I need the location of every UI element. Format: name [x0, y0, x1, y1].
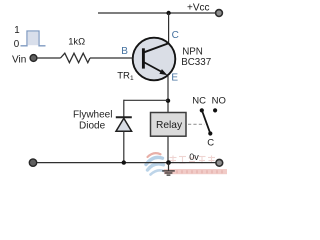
ground symbol: [168, 163, 170, 171]
svg-text:E: E: [171, 73, 178, 84]
svg-text:C: C: [172, 30, 179, 41]
svg-text:Relay: Relay: [156, 120, 183, 131]
svg-text:0: 0: [14, 39, 20, 50]
svg-text:1kΩ: 1kΩ: [68, 35, 85, 46]
wire collector drop: [168, 13, 170, 44]
switch contact NO: [213, 108, 217, 112]
wire diode tap horizontal: [124, 99, 168, 101]
wire base right segment: [90, 57, 133, 59]
pulse waveform icon: [21, 31, 46, 46]
diode D1 triangle: [116, 118, 132, 131]
switch arm C to NC: [201, 109, 210, 134]
dashed actuation link relay to switch: [188, 123, 205, 125]
resistor R1 1k zigzag: [61, 53, 91, 62]
svg-text:C: C: [207, 137, 214, 148]
watermark logo red arc: [148, 153, 161, 157]
svg-text:NPN: NPN: [182, 46, 203, 57]
transistor TR1 base bar: [142, 48, 145, 68]
svg-text:NO: NO: [212, 95, 226, 106]
wire relay bottom: [167, 136, 169, 162]
watermark logo blue swirl: [146, 157, 163, 164]
svg-text:B: B: [121, 46, 128, 57]
svg-text:1: 1: [14, 25, 19, 36]
watermark red banner: [164, 169, 227, 174]
junction diode tap: [166, 99, 170, 103]
svg-text:NC: NC: [192, 95, 206, 106]
switch pole C: [208, 131, 212, 135]
svg-text:0v: 0v: [189, 152, 199, 162]
svg-text:Diode: Diode: [79, 121, 106, 132]
svg-text:BC337: BC337: [181, 57, 211, 68]
switch contact NC: [200, 108, 204, 112]
junction relay/0v ground: [166, 160, 171, 165]
junction diode/0v: [122, 160, 126, 164]
watermark faint characters row: [170, 156, 216, 164]
terminal +Vcc: [216, 10, 223, 17]
svg-text:Flywheel: Flywheel: [73, 110, 112, 121]
svg-text:Vin: Vin: [12, 55, 26, 66]
input node Vin: [30, 55, 37, 62]
wire bottom 0v rail: [36, 162, 216, 164]
wire base left segment: [37, 57, 61, 59]
relay K1 box: [151, 113, 187, 137]
diode D1 cathode bar: [116, 116, 132, 118]
transistor TR1 collector stroke: [144, 43, 168, 52]
wire emitter drop to relay: [167, 76, 169, 113]
svg-text:+Vcc: +Vcc: [187, 3, 210, 14]
transistor TR1 body: [133, 38, 176, 81]
diode D1 bottom stub: [123, 131, 125, 162]
diode D1 top stub: [123, 100, 125, 117]
input node bottom left: [29, 159, 36, 166]
junction collector/Vcc: [166, 11, 170, 15]
wire top +Vcc rail: [98, 12, 215, 14]
terminal 0v right: [216, 159, 223, 166]
transistor TR1 emitter stroke with arrow: [144, 62, 162, 72]
